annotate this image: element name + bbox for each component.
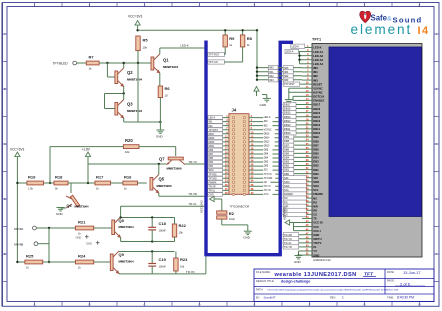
svg-text:E: E [4, 252, 6, 256]
svg-text:LED-A: LED-A [286, 50, 294, 54]
svg-text:IM0: IM0 [269, 66, 274, 70]
svg-text:Q7: Q7 [159, 157, 165, 162]
svg-text:DB10: DB10 [284, 131, 291, 135]
svg-text:10k: 10k [180, 265, 185, 269]
svg-text:CS: CS [313, 213, 317, 217]
svg-text:DB3: DB3 [313, 160, 319, 164]
svg-text:100nF: 100nF [159, 229, 167, 233]
svg-text:LED-A2: LED-A2 [313, 54, 323, 58]
svg-text:DB14: DB14 [313, 115, 320, 119]
svg-text:TFT-CS: TFT-CS [264, 174, 272, 176]
svg-text:GND: GND [243, 236, 251, 240]
svg-text:PAGE:: PAGE: [387, 279, 395, 283]
svg-text:TR-YD: TR-YD [284, 245, 292, 249]
svg-text:TFT-RST: TFT-RST [209, 130, 219, 132]
svg-text:MMBT3904: MMBT3904 [127, 109, 142, 113]
svg-text:Q5: Q5 [159, 177, 165, 182]
svg-text:DRV8B: DRV8B [14, 243, 23, 247]
svg-text:1.5k: 1.5k [28, 187, 34, 191]
svg-text:FMARK: FMARK [209, 181, 217, 184]
svg-text:LED-A4: LED-A4 [313, 62, 323, 66]
svg-text:DB2: DB2 [284, 164, 290, 168]
svg-text:LED-K: LED-K [181, 44, 189, 48]
svg-text:IM2: IM2 [284, 74, 289, 78]
svg-text:VCC=3V3: VCC=3V3 [10, 148, 24, 152]
svg-text:I4: I4 [418, 25, 430, 37]
svg-text:DB17: DB17 [209, 134, 215, 136]
svg-text:SCL: SCL [313, 188, 319, 192]
svg-text:VCC=3V3: VCC=3V3 [283, 207, 287, 220]
svg-text:B: B [88, 303, 90, 307]
svg-text:TFT-RST: TFT-RST [209, 53, 220, 57]
svg-text:TIME:: TIME: [387, 295, 394, 299]
svg-text:R7: R7 [89, 55, 95, 60]
svg-text:R8: R8 [247, 36, 253, 41]
svg-text:R5: R5 [143, 38, 149, 43]
svg-text:VCC-IO: VCC-IO [313, 221, 322, 225]
svg-text:REV:: REV: [330, 295, 336, 299]
svg-text:XR/YU: XR/YU [313, 237, 321, 241]
svg-text:TFT-CS: TFT-CS [209, 60, 218, 64]
svg-text:GND: GND [76, 235, 82, 239]
svg-text:DB15: DB15 [209, 138, 215, 140]
svg-text:R17: R17 [96, 175, 104, 180]
svg-text:VCC=3V3: VCC=3V3 [128, 15, 142, 19]
svg-text:wearable 13JUNE2017.DSN: wearable 13JUNE2017.DSN [274, 272, 357, 278]
svg-text:LED-A1: LED-A1 [313, 50, 323, 54]
svg-text:DESIGN TITLE:: DESIGN TITLE: [256, 279, 275, 283]
svg-text:NC: NC [313, 196, 317, 200]
svg-text:TR-XL: TR-XL [284, 241, 292, 245]
svg-text:TE: TE [313, 217, 317, 221]
svg-text:DB13: DB13 [209, 142, 215, 144]
svg-text:DB4: DB4 [284, 155, 290, 159]
svg-text:GND: GND [86, 242, 92, 246]
svg-text:DB4: DB4 [264, 158, 269, 160]
svg-text:SumitNT: SumitNT [264, 295, 276, 299]
svg-text:GND: GND [260, 103, 268, 107]
svg-text:R21: R21 [78, 220, 86, 225]
svg-text:RESET: RESET [313, 82, 322, 86]
svg-text:J4: J4 [232, 108, 237, 113]
svg-text:TR-XR: TR-XR [209, 186, 216, 188]
svg-text:A: A [33, 303, 35, 307]
svg-text:VSYNC: VSYNC [264, 129, 272, 131]
svg-text:TR-YD: TR-YD [264, 190, 271, 192]
svg-text:R19: R19 [28, 175, 36, 180]
svg-text:R16: R16 [124, 175, 132, 180]
svg-text:DB16: DB16 [284, 107, 291, 111]
svg-text:DB7: DB7 [284, 143, 290, 147]
svg-text:IM0: IM0 [313, 66, 318, 70]
svg-text:DB15: DB15 [313, 111, 320, 115]
svg-text:SCL: SCL [284, 188, 290, 192]
svg-text:VCC: VCC [313, 225, 319, 229]
svg-text:R9: R9 [229, 36, 235, 41]
svg-text:E: E [253, 303, 255, 307]
svg-text:DB9: DB9 [313, 135, 319, 139]
svg-text:RS: RS [313, 200, 317, 204]
svg-text:IM1: IM1 [284, 70, 289, 74]
svg-text:R20: R20 [125, 138, 133, 143]
svg-text:DB6: DB6 [284, 147, 290, 151]
svg-text:LED-K: LED-K [292, 44, 300, 48]
svg-text:DB12: DB12 [284, 123, 291, 127]
svg-text:IM1: IM1 [313, 70, 318, 74]
svg-text:TR-YU: TR-YU [189, 160, 198, 164]
svg-text:YV: YV [313, 249, 317, 253]
svg-text:VCC-I: VCC-I [313, 229, 321, 233]
svg-text:Q1: Q1 [163, 58, 169, 63]
svg-text:NC: NC [264, 182, 268, 184]
svg-text:DB2: DB2 [264, 162, 269, 164]
svg-text:+1.8V: +1.8V [82, 148, 91, 152]
svg-text:TR-XL: TR-XL [209, 190, 216, 192]
svg-text:TFT-WR: TFT-WR [264, 178, 273, 180]
svg-text:13-Jun-17: 13-Jun-17 [403, 270, 421, 275]
svg-text:MMBT3904: MMBT3904 [119, 225, 134, 229]
svg-text:Q9: Q9 [119, 252, 125, 257]
svg-text:DRV8A: DRV8A [14, 227, 23, 231]
svg-text:element: element [351, 22, 413, 37]
svg-text:Q8: Q8 [119, 218, 125, 223]
svg-text:SDI: SDI [284, 176, 289, 180]
svg-text:DB16: DB16 [313, 107, 320, 111]
svg-text:10k: 10k [179, 231, 184, 235]
svg-text:RS: RS [284, 200, 288, 204]
svg-text:SDO: SDO [209, 170, 214, 172]
svg-text:DB0: DB0 [313, 172, 319, 176]
svg-text:TFT-BLED: TFT-BLED [53, 62, 69, 66]
svg-text:SDO: SDO [313, 180, 319, 184]
svg-text:100nF: 100nF [159, 265, 167, 269]
svg-text:DB1: DB1 [284, 168, 290, 172]
svg-text:IM2: IM2 [269, 74, 274, 78]
svg-text:MMBT3906: MMBT3906 [157, 184, 172, 188]
svg-text:DB3: DB3 [284, 160, 290, 164]
svg-text:TFTCONNECTOR: TFTCONNECTOR [230, 205, 250, 208]
svg-text:DB15: DB15 [284, 111, 291, 115]
svg-text:TFT-RS: TFT-RS [209, 174, 217, 176]
svg-text:YD/YV: YD/YV [313, 241, 321, 245]
svg-text:10k: 10k [125, 150, 130, 154]
svg-text:H: H [418, 303, 420, 307]
svg-text:DB6: DB6 [313, 147, 319, 151]
svg-text:Q6: Q6 [67, 204, 72, 208]
svg-text:DB9: DB9 [209, 150, 214, 152]
svg-text:GND: GND [313, 233, 319, 237]
svg-text:SDI: SDI [264, 170, 268, 172]
svg-text:LED-A: LED-A [264, 116, 271, 119]
svg-text:DB11: DB11 [313, 127, 320, 131]
svg-text:PATH:: PATH: [256, 288, 264, 292]
svg-text:R24: R24 [78, 254, 86, 259]
svg-text:TFT-RST: TFT-RST [284, 82, 295, 86]
svg-text:DB2: DB2 [313, 164, 319, 168]
svg-text:TR-YU: TR-YU [264, 186, 271, 188]
svg-text:10uF: 10uF [229, 217, 235, 221]
svg-text:GND: GND [56, 212, 64, 216]
svg-text:C:\Users\Sumit\Desktop\design-: C:\Users\Sumit\Desktop\design-challenge2… [267, 289, 399, 292]
svg-text:A: A [4, 32, 6, 36]
svg-text:C19: C19 [159, 257, 167, 262]
svg-text:DB1: DB1 [313, 168, 319, 172]
svg-text:DB5: DB5 [284, 151, 290, 155]
svg-text:MMBT3904: MMBT3904 [75, 205, 90, 209]
svg-text:HSYNC: HSYNC [313, 90, 322, 94]
svg-text:DB13: DB13 [313, 119, 320, 123]
svg-text:DB7: DB7 [313, 143, 319, 147]
svg-text:NC: NC [284, 196, 288, 200]
svg-text:DB17: DB17 [284, 103, 291, 107]
svg-text:GND: GND [313, 253, 319, 257]
svg-text:DB10: DB10 [313, 131, 320, 135]
svg-text:IM3: IM3 [313, 78, 318, 82]
svg-text:DB17: DB17 [313, 103, 320, 107]
svg-text:R25: R25 [26, 254, 34, 259]
svg-text:HSD043I-C12: HSD043I-C12 [313, 258, 331, 262]
svg-text:DB10: DB10 [264, 145, 270, 147]
svg-text:LED-K: LED-K [313, 46, 321, 50]
svg-text:MMBT3904: MMBT3904 [163, 65, 178, 69]
svg-text:WR: WR [313, 204, 318, 208]
svg-text:FILE NAME:: FILE NAME: [256, 270, 271, 274]
svg-text:GND: GND [156, 134, 164, 138]
svg-text:ENABLE: ENABLE [313, 99, 324, 103]
svg-text:10: 10 [165, 94, 169, 98]
svg-text:IM3: IM3 [284, 78, 289, 82]
svg-text:LED-A3: LED-A3 [313, 58, 323, 62]
svg-text:DB8: DB8 [313, 139, 319, 143]
svg-text:8:40:30 PM: 8:40:30 PM [397, 296, 414, 300]
svg-text:SDA: SDA [313, 184, 319, 188]
svg-text:DB7: DB7 [209, 154, 214, 156]
svg-text:DB14: DB14 [284, 115, 291, 119]
svg-text:TFT-RD: TFT-RD [209, 178, 217, 180]
svg-text:VCC: VCC [264, 194, 269, 196]
svg-text:DB14: DB14 [264, 137, 270, 139]
svg-text:DB0: DB0 [264, 166, 269, 168]
svg-text:GND: GND [209, 194, 214, 196]
svg-text:IM3: IM3 [269, 78, 274, 82]
svg-text:E2: E2 [229, 211, 235, 216]
svg-text:GND: GND [294, 260, 302, 264]
svg-text:TFT1: TFT1 [312, 38, 321, 42]
svg-text:TR-XR: TR-XR [189, 192, 198, 196]
svg-text:FMARK: FMARK [313, 192, 323, 196]
svg-text:IM1: IM1 [269, 70, 274, 74]
svg-text:DB3: DB3 [209, 162, 214, 164]
svg-text:R18: R18 [55, 175, 63, 180]
svg-text:DB5: DB5 [313, 152, 319, 156]
svg-text:BY:: BY: [256, 295, 260, 299]
svg-text:TR-XL: TR-XL [189, 202, 198, 206]
svg-text:DB12: DB12 [313, 123, 320, 127]
svg-text:R23: R23 [180, 257, 188, 262]
svg-text:1: 1 [342, 295, 344, 299]
svg-text:VSYNC: VSYNC [313, 86, 322, 90]
svg-text:FMARK: FMARK [284, 192, 293, 196]
svg-text:DB5: DB5 [209, 158, 214, 160]
svg-text:Q2: Q2 [127, 70, 133, 75]
svg-text:R22: R22 [179, 223, 187, 228]
svg-text:MMBT3904: MMBT3904 [127, 78, 142, 82]
svg-text:F: F [309, 303, 311, 307]
svg-text:DB13: DB13 [284, 119, 291, 123]
svg-text:design-challenge: design-challenge [281, 280, 310, 284]
svg-text:C18: C18 [159, 221, 167, 226]
svg-text:DB11: DB11 [284, 127, 291, 131]
svg-text:TR-XR: TR-XR [284, 233, 292, 237]
svg-text:DB1: DB1 [209, 166, 214, 168]
svg-text:MMBT3904: MMBT3904 [119, 259, 134, 263]
svg-text:R6: R6 [165, 86, 171, 91]
svg-text:DB8: DB8 [264, 150, 269, 152]
svg-text:LED-K: LED-K [209, 118, 216, 120]
svg-text:DB8: DB8 [284, 139, 290, 143]
svg-text:B: B [4, 87, 6, 91]
svg-text:Q3: Q3 [127, 102, 133, 107]
svg-text:DOTCLK: DOTCLK [313, 95, 324, 99]
svg-text:DB12: DB12 [264, 141, 270, 143]
svg-text:IM0: IM0 [284, 66, 289, 70]
svg-text:SDI: SDI [313, 176, 318, 180]
svg-text:IM2: IM2 [313, 74, 318, 78]
svg-text:DB6: DB6 [264, 154, 269, 156]
svg-text:VCC=3V3: VCC=3V3 [200, 200, 204, 213]
svg-text:MMBT3906: MMBT3906 [167, 166, 182, 170]
svg-text:TR-YD: TR-YD [186, 270, 195, 274]
svg-text:DB11: DB11 [209, 146, 215, 148]
svg-text:TR-YU: TR-YU [284, 237, 292, 241]
svg-text:XL: XL [313, 245, 317, 249]
svg-text:DB9: DB9 [284, 135, 290, 139]
svg-text:10k: 10k [143, 46, 148, 50]
svg-text:DB0: DB0 [284, 172, 290, 176]
svg-text:DB16: DB16 [264, 133, 270, 135]
svg-text:DATE:: DATE: [387, 270, 395, 274]
svg-text:SDO: SDO [284, 180, 290, 184]
svg-text:SDA: SDA [284, 184, 290, 188]
svg-text:DB4: DB4 [313, 156, 319, 160]
svg-text:RD: RD [313, 209, 317, 213]
